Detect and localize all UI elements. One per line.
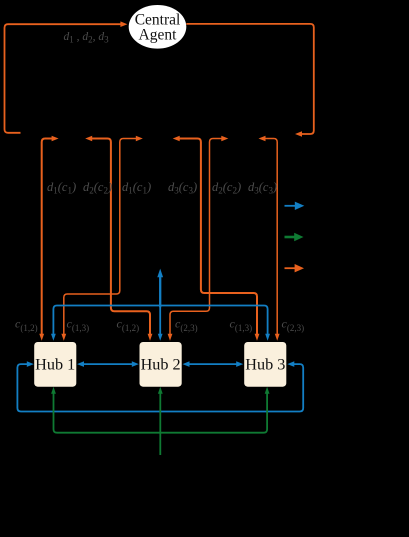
arrowhead of downlink pointing left bbox=[295, 131, 302, 137]
blue arrowheads: up arrow and three hub-top arrows bbox=[157, 269, 163, 278]
svg-text:d2(c2): d2(c2) bbox=[83, 180, 112, 196]
wire: orange trunk L1 (hook arrow right, down into Hub 1 left) bbox=[42, 139, 52, 335]
wire: blue double arrow Hub1-Hub2 bbox=[83, 363, 133, 365]
svg-text:d2(c2): d2(c2) bbox=[212, 180, 241, 196]
wire: uplink from hubs to Central Agent (orange, left side) bbox=[5, 24, 121, 133]
legend arrow green bbox=[285, 236, 297, 239]
hub 2 box bbox=[140, 342, 182, 387]
arrowhead into Central Agent bbox=[120, 21, 127, 27]
svg-text:Hub 3: Hub 3 bbox=[245, 356, 285, 374]
svg-text:d3(c3): d3(c3) bbox=[248, 180, 277, 196]
legend arrow blue bbox=[285, 205, 297, 207]
svg-text:d3(c3): d3(c3) bbox=[168, 180, 197, 196]
hub 3 box bbox=[244, 342, 286, 387]
green arrowheads up into hubs bbox=[51, 387, 56, 394]
wire: downlink from Central Agent (orange, right side) bbox=[186, 24, 313, 134]
central agent ellipse bbox=[129, 5, 187, 49]
svg-text:d1(c1): d1(c1) bbox=[47, 180, 76, 196]
wire: green feed into hub bottoms bbox=[54, 393, 268, 455]
wire: blue ring Hub1-Hub3 around bottom bbox=[17, 364, 303, 411]
wire: orange trunk L6 (hook arrow left, straight down into Hub 3 right) bbox=[265, 139, 277, 335]
svg-text:Hub 2: Hub 2 bbox=[141, 356, 181, 374]
wire: orange trunk L4 (hook arrow left, down then right into Hub 3 left) bbox=[179, 139, 257, 335]
svg-text:d1(c1): d1(c1) bbox=[122, 180, 151, 196]
wire: blue distribution bus into hub tops bbox=[53, 306, 267, 335]
svg-text:Agent: Agent bbox=[139, 26, 178, 43]
blue up branch (thicker) bbox=[159, 277, 161, 307]
hub 1 box bbox=[34, 342, 76, 387]
wire: orange trunk L2 (hook arrow left, down then right into Hub 2 left) bbox=[92, 139, 150, 335]
legend arrow orange bbox=[285, 267, 297, 269]
wire: orange trunk L5 (hook arrow right, down then left into Hub 2 right) bbox=[170, 139, 222, 335]
svg-text:Hub 1: Hub 1 bbox=[35, 356, 75, 374]
wire: blue double arrow Hub2-Hub3 bbox=[189, 363, 239, 365]
wire: orange trunk L3 (hook arrow right, down then left into Hub 1 right) bbox=[64, 139, 137, 335]
